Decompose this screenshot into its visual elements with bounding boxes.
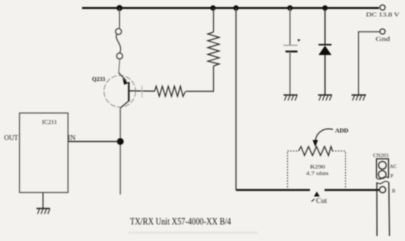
- wire : dashed top left stub: [288, 150, 299, 152]
- svg-text:IN: IN: [68, 135, 76, 142]
- wire : long drop from rail to bottom wire: [235, 8, 237, 190]
- terminal : DC 13.8 V supply input: [366, 5, 400, 19]
- connector CN203: [373, 153, 390, 236]
- pin 2 circle (P): [378, 171, 386, 179]
- wire : IC211 to ground: [42, 193, 44, 209]
- svg-text:P: P: [391, 175, 394, 180]
- scan artifact streak under caption: [128, 232, 258, 234]
- node : junction dot at capacitor: [287, 5, 292, 10]
- terminal : Gnd: [376, 29, 392, 43]
- wire : capacitor to ground: [289, 52, 291, 96]
- svg-text:Cut: Cut: [316, 196, 328, 205]
- resistor : base series resistor: [155, 86, 186, 96]
- svg-text:ADD: ADD: [335, 128, 349, 135]
- ground : under capacitor: [284, 95, 298, 101]
- wire : rail to diode: [324, 8, 326, 45]
- svg-text:DC 13.8 V: DC 13.8 V: [366, 12, 400, 19]
- wire : dashed add-path right leg: [345, 151, 347, 190]
- pin label P: [391, 175, 394, 180]
- resistor : vertical resistor from rail: [208, 32, 219, 66]
- svg-text:CN203: CN203: [373, 153, 389, 159]
- node : junction dot at vertical resistor: [210, 5, 215, 10]
- wire : rail to coil: [119, 8, 121, 28]
- svg-text:Q233: Q233: [92, 76, 106, 83]
- capacitor C (electrolytic to ground): [284, 39, 301, 52]
- ground : under Gnd terminal: [352, 95, 367, 101]
- pin 1 circle (AC): [379, 161, 387, 169]
- resistor R290 4.7 ohm (added part): [299, 147, 333, 178]
- pin label AC: [390, 165, 398, 170]
- pin label IN: [68, 135, 76, 142]
- label Cut with up arrow at wire gap: [312, 192, 328, 206]
- wire : Q233 base line: [129, 90, 155, 92]
- wire : bottom wire left segment (to cut): [236, 189, 310, 191]
- pin label OUT: [4, 135, 19, 142]
- svg-text:4.7 ohm: 4.7 ohm: [306, 171, 329, 177]
- wire : resistor to vertical-resistor leg: [186, 66, 214, 91]
- svg-text:TX/RX Unit X57-4000-XX B/4: TX/RX Unit X57-4000-XX B/4: [130, 218, 231, 228]
- label ADD with leader arrow: [313, 128, 349, 148]
- capacitor (faint tick) in base line: [141, 86, 143, 98]
- node : junction of collector wire and IC211 IN: [117, 138, 124, 145]
- wire : +13.8V power rail: [82, 7, 379, 9]
- wire : rail to capacitor: [289, 8, 291, 45]
- node : junction dot at coil branch: [117, 5, 123, 11]
- svg-text:OUT: OUT: [4, 135, 19, 142]
- node : junction dot at long drop wire: [233, 5, 238, 10]
- svg-text:AC: AC: [390, 165, 398, 170]
- wire : coil to Q233 emitter: [119, 59, 120, 73]
- wire : IC211 IN pin to junction: [68, 141, 120, 143]
- transistor Q2 33 (PNP): [92, 73, 136, 108]
- pin label B: [392, 189, 396, 194]
- diode D (cathode to rail, anode to ground): [319, 45, 332, 55]
- inductor L (2-turn coil) feeding Q233 emitter: [116, 29, 123, 60]
- wire : bottom wire right segment (cut to CN203 pin B): [325, 189, 380, 191]
- wire : Gnd terminal to ground: [359, 32, 380, 95]
- node : junction dot at diode: [322, 5, 327, 10]
- ground : under IC211: [37, 209, 51, 215]
- svg-text:R290: R290: [310, 165, 325, 171]
- IC U IC211 box: [20, 113, 69, 193]
- wire : Q233 collector down to IN node: [119, 108, 121, 195]
- ground : under diode: [318, 95, 332, 101]
- wire : diode to ground: [324, 55, 326, 95]
- caption : TX/RX Unit X57-4000-XX B/4: [130, 218, 231, 228]
- wire : dashed top right stub: [333, 150, 346, 152]
- svg-text:IC211: IC211: [42, 119, 57, 126]
- wire : rail to vertical resistor: [213, 8, 215, 32]
- pin 3 circle (B): [380, 187, 386, 193]
- svg-text:Gnd: Gnd: [376, 36, 392, 43]
- wire : dashed add-path left leg: [287, 151, 289, 190]
